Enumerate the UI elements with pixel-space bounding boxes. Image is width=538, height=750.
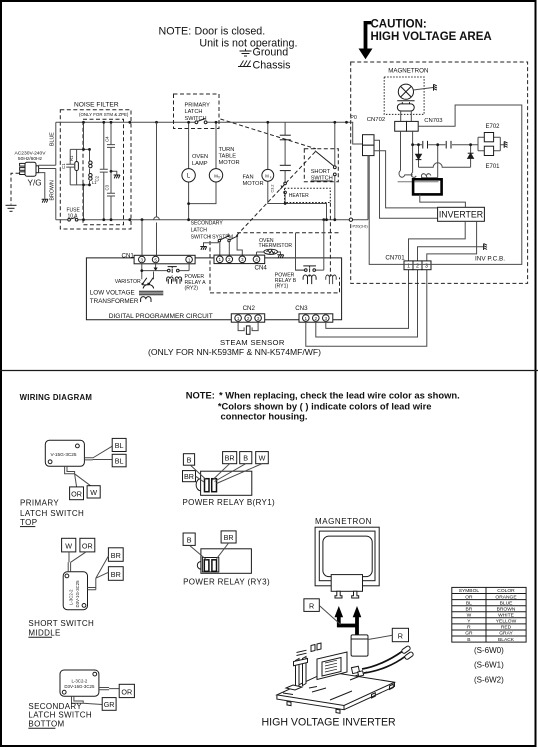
svg-text:DIGITAL PROGRAMMER CIRCUIT: DIGITAL PROGRAMMER CIRCUIT	[109, 313, 213, 320]
svg-text:3: 3	[141, 257, 144, 262]
bottom bus riser to P0	[367, 156, 369, 220]
svg-text:2: 2	[315, 316, 318, 321]
dashed diagonal short switch to secondary latch	[236, 152, 315, 236]
primary latch dashed box	[174, 94, 220, 129]
feet	[287, 684, 393, 713]
HV dashed box	[351, 62, 528, 283]
svg-text:(ONLY FOR NN-K593MF & NN-K574M: (ONLY FOR NN-K593MF & NN-K574MF/WF)	[148, 347, 321, 357]
svg-text:LAMP: LAMP	[192, 161, 208, 167]
board top face	[277, 672, 395, 706]
svg-text:MAGNETRON: MAGNETRON	[388, 68, 428, 75]
magnetron dotted box	[384, 77, 424, 114]
svg-text:3: 3	[325, 316, 328, 321]
relay A contact row wire	[142, 270, 189, 272]
ground legend symbol	[240, 49, 252, 56]
chassis symbol under brown	[42, 199, 48, 202]
steam sensor symbol	[238, 322, 258, 330]
right terminal	[88, 556, 109, 590]
noise filter inner dashed box	[83, 119, 124, 225]
svg-text:BROWN: BROWN	[50, 180, 56, 200]
svg-text:R1: R1	[69, 155, 74, 161]
svg-text:BR: BR	[224, 533, 234, 542]
right terminal	[84, 446, 112, 460]
svg-text:TABLE: TABLE	[219, 153, 237, 159]
svg-text:5: 5	[154, 257, 157, 262]
svg-text:LOW VOLTAGE: LOW VOLTAGE	[90, 290, 135, 297]
HV cap line	[413, 144, 504, 146]
caution arrow	[359, 21, 373, 59]
svg-text:BR: BR	[466, 606, 473, 612]
HV transformer windings	[399, 171, 416, 178]
svg-text:(S-6W1): (S-6W1)	[474, 661, 504, 670]
tags	[62, 538, 76, 552]
svg-text:R: R	[398, 631, 403, 640]
svg-text:Chassis: Chassis	[253, 60, 291, 72]
svg-text:STEAM SENSOR: STEAM SENSOR	[220, 338, 285, 347]
svg-text:1: 1	[188, 257, 191, 262]
svg-text:OR: OR	[121, 687, 132, 696]
svg-text:TRANSFORMER: TRANSFORMER	[90, 298, 139, 305]
svg-text:TT: TT	[217, 175, 221, 179]
earth ground symbol	[6, 205, 17, 211]
svg-text:connector housing.: connector housing.	[221, 411, 308, 422]
svg-text:SECONDARY: SECONDARY	[191, 221, 224, 227]
R tag left	[304, 599, 319, 612]
fuse contacts	[68, 218, 78, 221]
top bus	[56, 121, 351, 123]
CN1 connector box	[134, 255, 195, 263]
svg-text:(S-6W2): (S-6W2)	[474, 676, 504, 685]
svg-text:V-15G-3C25: V-15G-3C25	[50, 452, 76, 457]
svg-text:HIGH VOLTAGE AREA: HIGH VOLTAGE AREA	[371, 31, 492, 43]
svg-text:BL: BL	[466, 600, 472, 606]
chassis legend symbol	[238, 61, 251, 67]
svg-text:YELLOW: YELLOW	[496, 619, 517, 625]
svg-text:(S-6W0): (S-6W0)	[474, 646, 504, 655]
svg-text:R: R	[467, 625, 471, 631]
CN1 "5" wire from top bus with hop over bottom bus	[156, 122, 158, 256]
R tag right	[392, 628, 408, 641]
svg-text:50Hz/60Hz: 50Hz/60Hz	[18, 156, 43, 162]
chassis ground (noise filter)	[114, 175, 120, 178]
svg-text:BLACK: BLACK	[498, 637, 515, 643]
svg-text:4: 4	[255, 257, 258, 262]
svg-text:HEATER: HEATER	[289, 193, 309, 199]
filament leads down	[401, 131, 413, 172]
svg-text:INVERTER: INVERTER	[439, 210, 483, 220]
svg-text:P0: P0	[350, 115, 357, 121]
svg-text:LATCH SWITCH: LATCH SWITCH	[20, 509, 84, 518]
svg-text:1: 1	[219, 257, 222, 262]
svg-text:ORANGE: ORANGE	[495, 594, 517, 600]
svg-text:OR: OR	[465, 594, 473, 600]
svg-text:POWER RELAY (RY3): POWER RELAY (RY3)	[183, 577, 270, 586]
svg-text:TOP: TOP	[20, 518, 38, 527]
svg-text:WIRING DIAGRAM: WIRING DIAGRAM	[20, 393, 93, 402]
lead lines	[191, 464, 263, 484]
svg-text:CN3: CN3	[295, 305, 308, 312]
BL tags	[112, 438, 126, 451]
wire: plug to blue riser	[39, 165, 56, 168]
svg-text:BR: BR	[111, 570, 121, 579]
svg-text:LATCH: LATCH	[185, 109, 203, 115]
dashed box	[210, 233, 340, 293]
P0 wires to inverter	[374, 140, 438, 218]
svg-text:MAGNETRON: MAGNETRON	[315, 517, 372, 526]
core line grey	[398, 181, 439, 183]
svg-text:Door is closed.: Door is closed.	[195, 25, 266, 37]
leader from R right	[368, 635, 392, 639]
wires below CN1	[142, 263, 189, 278]
svg-text:OR: OR	[82, 542, 93, 551]
svg-text:Y/G: Y/G	[28, 179, 42, 188]
svg-text:B: B	[243, 454, 248, 463]
svg-text:C4: C4	[105, 136, 110, 142]
svg-text:C1: C1	[61, 163, 66, 169]
wire: brown drop to chassis	[39, 173, 45, 199]
svg-text:VARISTOR: VARISTOR	[115, 279, 141, 285]
svg-text:B: B	[187, 535, 192, 544]
svg-text:W: W	[467, 613, 472, 619]
svg-text:OR: OR	[71, 489, 82, 498]
svg-text:M: M	[265, 173, 269, 178]
svg-text:C3: C3	[105, 184, 110, 190]
magnetron tube symbol	[398, 84, 413, 99]
heater bottom wire to bus	[285, 204, 326, 220]
relay body	[201, 471, 252, 495]
svg-text:P20(3-6): P20(3-6)	[353, 224, 369, 229]
switch body vertical	[63, 572, 87, 610]
svg-text:2: 2	[228, 257, 231, 262]
primary latch contacts on bus	[195, 119, 207, 124]
plug body	[20, 162, 39, 176]
svg-text:PRIMARY: PRIMARY	[20, 499, 59, 508]
CN1 "3" wire from bottom bus	[141, 220, 143, 256]
svg-text:1: 1	[237, 316, 240, 321]
svg-text:AC230V-240V: AC230V-240V	[15, 151, 47, 157]
svg-text:HIGH VOLTAGE INVERTER: HIGH VOLTAGE INVERTER	[262, 716, 397, 728]
OR / W tags	[70, 487, 84, 500]
svg-text:NOISE FILTER: NOISE FILTER	[74, 102, 119, 109]
connector tips	[401, 645, 414, 660]
section divider line	[0, 370, 538, 372]
small parts	[283, 672, 367, 700]
svg-text:NOTE:: NOTE:	[186, 389, 215, 400]
HV fuse body	[351, 635, 368, 656]
secondary winding	[141, 297, 151, 302]
svg-text:SYMBOL: SYMBOL	[459, 588, 480, 594]
choke L1	[89, 149, 91, 185]
bottom bus	[56, 219, 368, 221]
svg-text:BLUE: BLUE	[50, 132, 56, 146]
leader from R left	[319, 606, 340, 625]
stub wires C1/R1/L1	[70, 149, 89, 185]
svg-text:LATCH: LATCH	[191, 228, 208, 234]
svg-text:CN2: CN2	[243, 305, 256, 312]
bold arrows	[335, 606, 344, 617]
svg-text:SHORT: SHORT	[311, 169, 331, 175]
prongs	[335, 591, 359, 598]
svg-text:D3V-16G-3C25: D3V-16G-3C25	[64, 684, 95, 689]
mid vertical	[437, 145, 439, 178]
svg-text:3: 3	[257, 316, 260, 321]
svg-text:1: 1	[305, 316, 308, 321]
svg-text:C3.2: C3.2	[270, 184, 274, 192]
capacitor C4 branch	[107, 122, 115, 219]
svg-text:BOTTOM: BOTTOM	[28, 719, 64, 728]
svg-text:D3V-1G-3C25: D3V-1G-3C25	[75, 580, 80, 608]
svg-text:SECONDARY: SECONDARY	[28, 702, 82, 711]
svg-text:B: B	[187, 455, 192, 464]
contact	[168, 267, 180, 272]
P0 connector boxes	[363, 135, 375, 146]
tags	[183, 454, 194, 466]
chassis ground (thermistor)	[277, 255, 283, 258]
core lines	[139, 291, 163, 294]
chassis ground (magnetron)	[434, 84, 437, 90]
chassis stub in filter	[111, 171, 117, 175]
svg-text:Ground: Ground	[253, 47, 289, 59]
svg-text:OVEN: OVEN	[192, 154, 208, 160]
svg-text:W: W	[259, 454, 266, 463]
svg-text:RED: RED	[501, 625, 512, 631]
inverter bottom wires	[409, 221, 477, 261]
wire to relay contact	[296, 233, 305, 270]
svg-text:WHITE: WHITE	[498, 613, 514, 619]
svg-text:BROWN: BROWN	[497, 606, 516, 612]
resistor R1	[76, 149, 78, 185]
coil	[167, 277, 173, 284]
capacitor C1	[66, 149, 74, 185]
wire transformer to inverter	[420, 194, 466, 207]
svg-text:(ONLY FOR STM & ZPE): (ONLY FOR STM & ZPE)	[79, 112, 129, 117]
switches	[218, 236, 237, 242]
svg-text:GR: GR	[104, 700, 115, 709]
diode D2	[470, 145, 472, 168]
dashed diagonal primary latch to short switch	[220, 119, 316, 149]
svg-text:(RY2): (RY2)	[185, 285, 199, 291]
top terminal	[68, 552, 86, 572]
bus to P0 connector	[351, 122, 363, 144]
svg-text:B: B	[467, 637, 470, 643]
svg-text:CN702: CN702	[367, 117, 385, 123]
bottom terminal	[65, 466, 91, 487]
svg-text:MOTOR: MOTOR	[219, 160, 240, 166]
thermal cutout contacts	[280, 182, 286, 194]
svg-text:BR: BR	[225, 454, 235, 463]
P20 crossing circle	[349, 218, 352, 221]
svg-text:FAN: FAN	[243, 174, 254, 180]
chassis stub	[204, 242, 219, 247]
earth dashed lead	[11, 173, 20, 204]
chassis ground (inverter pcb)	[484, 244, 487, 250]
primary bump	[143, 283, 153, 289]
CN702/CN703 connector block	[395, 121, 407, 131]
svg-text:CAUTION:: CAUTION:	[371, 19, 427, 31]
svg-text:TURN: TURN	[219, 147, 235, 153]
svg-text:NOTE:: NOTE:	[159, 25, 192, 37]
noise filter outer dashed box	[60, 110, 131, 229]
svg-text:2: 2	[247, 316, 250, 321]
svg-text:PRIMARY: PRIMARY	[185, 102, 211, 108]
dashed line heater box to RY1 coil2	[329, 203, 331, 277]
svg-text:BR: BR	[184, 472, 194, 481]
svg-text:L-3C2-2: L-3C2-2	[69, 589, 74, 605]
svg-text:INV P.C.B.: INV P.C.B.	[475, 256, 505, 263]
slots	[205, 479, 210, 492]
curved wires to connectors	[362, 652, 402, 670]
svg-text:BL: BL	[115, 441, 124, 450]
bus junction dots mid	[141, 121, 348, 221]
HV transformer bold rect	[413, 179, 442, 194]
svg-text:POWER RELAY B(RY1): POWER RELAY B(RY1)	[183, 498, 276, 507]
svg-text:CN4: CN4	[255, 265, 268, 272]
svg-text:BL: BL	[115, 457, 124, 466]
relay body	[201, 549, 252, 574]
chassis ground (E702/E701)	[504, 142, 507, 148]
svg-text:GR: GR	[465, 631, 473, 637]
svg-text:W: W	[65, 542, 72, 551]
svg-text:THERMISTOR: THERMISTOR	[259, 243, 293, 249]
svg-text:SHORT SWITCH: SHORT SWITCH	[28, 619, 94, 628]
magnetron leads	[401, 111, 412, 121]
svg-text:COLOR: COLOR	[497, 588, 515, 594]
diode D1	[418, 145, 420, 168]
svg-text:W: W	[90, 488, 97, 497]
left riser wire	[55, 122, 57, 219]
svg-text:CN703: CN703	[424, 118, 443, 124]
svg-text:BR: BR	[111, 551, 121, 560]
svg-text:CN701: CN701	[385, 255, 405, 262]
svg-text:* When replacing, check the le: * When replacing, check the lead wire co…	[219, 389, 460, 400]
capacitor C2 branch	[100, 122, 108, 219]
svg-text:E702: E702	[486, 124, 501, 130]
svg-text:E701: E701	[486, 164, 501, 170]
heat sink / bracket left	[296, 659, 300, 688]
filament connector housing	[331, 575, 362, 592]
svg-text:GRAY: GRAY	[499, 631, 513, 637]
CN3 wires to CN701	[306, 270, 427, 347]
svg-text:(RY1): (RY1)	[275, 284, 289, 290]
chassis ground (secondary latch)	[200, 247, 206, 250]
svg-text:R: R	[309, 601, 314, 610]
svg-text:MOTOR: MOTOR	[243, 181, 264, 187]
INV PCB outline	[369, 105, 522, 264]
svg-text:3: 3	[241, 257, 244, 262]
junction dots filter	[82, 121, 131, 221]
svg-text:BLUE: BLUE	[500, 600, 514, 606]
heater dotted box	[285, 188, 331, 202]
svg-text:MIDDLE: MIDDLE	[28, 628, 60, 637]
transformer block	[317, 652, 347, 680]
svg-text:L-3C2-2: L-3C2-2	[71, 678, 87, 683]
board thickness	[277, 682, 395, 710]
microswitch body	[45, 440, 84, 466]
svg-text:C2: C2	[95, 175, 100, 181]
svg-text:F: F	[270, 175, 272, 179]
svg-text:LATCH SWITCH: LATCH SWITCH	[28, 711, 92, 720]
bottom link with hop	[419, 163, 471, 167]
filter branch wire x=83.5	[83, 122, 85, 219]
